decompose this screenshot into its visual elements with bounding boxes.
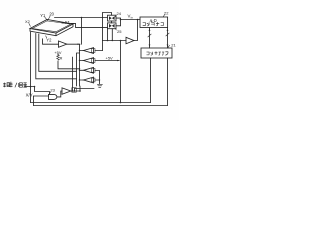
svg-text:A·D: A·D [150,18,157,23]
svg-text:Y2: Y2 [46,38,52,43]
svg-text:+5V: +5V [54,50,61,55]
svg-text:+5V: +5V [106,55,114,60]
svg-text:24: 24 [117,11,122,16]
svg-text:25: 25 [117,29,122,34]
svg-text:X/Y: X/Y [26,93,33,98]
svg-text:R: R [60,56,63,60]
svg-text:20: 20 [49,12,54,17]
svg-text:Y1: Y1 [40,13,46,18]
svg-text:22: 22 [164,10,169,15]
svg-text:in: in [131,16,134,20]
svg-text:23: 23 [50,88,55,93]
svg-text:X2: X2 [25,19,30,24]
svg-text:21: 21 [171,43,176,48]
svg-text:X1: X1 [65,20,71,25]
